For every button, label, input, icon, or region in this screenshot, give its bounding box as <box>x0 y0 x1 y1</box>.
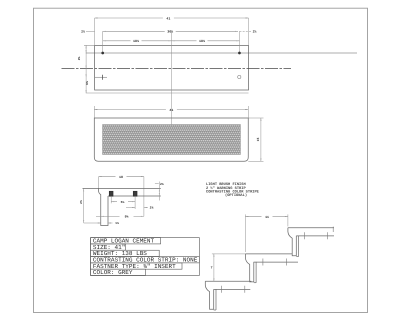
dim 41 view2 ext left <box>93 106 95 118</box>
insert dot right <box>238 52 241 55</box>
view1 tread plan outline <box>95 45 249 90</box>
spec table row 6 box <box>91 269 146 275</box>
view1 left dim arrow b <box>85 50 88 53</box>
stair tread3 top line <box>288 227 334 229</box>
stair tread1 anchor tick 2 <box>244 286 246 293</box>
view2 right dim arrow top <box>259 118 262 121</box>
stair tread1 nose profile <box>205 281 213 309</box>
stair dim 7 ext <box>212 253 246 255</box>
view1 left dim arrow d <box>85 74 88 77</box>
svg-text:2½: 2½ <box>80 200 83 204</box>
svg-text:18¼: 18¼ <box>133 39 139 43</box>
svg-text:(OPTIONAL): (OPTIONAL) <box>225 193 247 198</box>
dim 41 top <box>95 17 163 19</box>
spec table row 5 box <box>91 263 182 269</box>
section nose and leg outline <box>99 188 108 225</box>
section right dim line <box>158 182 160 201</box>
dim 18quarter right <box>172 40 197 42</box>
section dim 9fiveeighth <box>96 215 120 217</box>
dim 41 view2 ext right <box>247 106 249 118</box>
view1 left dim line <box>85 45 87 93</box>
horizontal centerline <box>62 68 292 70</box>
svg-text:9⅝: 9⅝ <box>125 214 129 218</box>
spec table row 1 box <box>91 238 161 244</box>
stair tread2 underside <box>254 261 298 263</box>
section insert square 1 <box>109 191 113 196</box>
sheet border frame <box>34 8 368 312</box>
svg-text:1¼: 1¼ <box>115 221 119 225</box>
svg-text:18¼: 18¼ <box>199 39 205 43</box>
dim 2quarter right leader <box>239 30 251 32</box>
section left dim line <box>83 188 85 223</box>
dim 18quarter left <box>103 40 131 42</box>
view1 bottom extension line <box>86 92 249 94</box>
svg-text:11: 11 <box>265 215 269 219</box>
stair tread2 anchor tick 2 <box>285 259 287 266</box>
stair tread2 anchor tick 1 <box>262 259 264 266</box>
spec table outer box <box>91 238 200 276</box>
svg-text:2¼: 2¼ <box>253 30 257 34</box>
stair tread1 top line <box>205 280 251 282</box>
section dim 10 ext right <box>143 177 145 217</box>
hole marker plus left <box>95 76 107 78</box>
section insert square 2 <box>133 191 137 196</box>
stair tread3 end tick <box>332 227 334 232</box>
dim 41 extension right <box>248 18 250 45</box>
section dim 1quarter <box>84 222 101 224</box>
section dim 2threequarter line <box>126 206 135 208</box>
view1 left dim arrow e <box>85 90 88 93</box>
stair tread2 top line <box>245 253 292 255</box>
svg-text:COLOR: GREY: COLOR: GREY <box>93 269 133 276</box>
stair tread3 anchor tick 2 <box>327 232 329 239</box>
svg-text:7: 7 <box>211 265 213 269</box>
section dim 10 <box>99 176 116 178</box>
svg-text:41: 41 <box>169 108 173 112</box>
svg-text:2⅛: 2⅛ <box>78 57 81 61</box>
svg-text:10: 10 <box>119 175 123 179</box>
stair tread2 nose profile <box>245 254 253 282</box>
view2 right dim arrow bottom <box>259 158 262 161</box>
view1 left dim arrow a <box>85 45 88 48</box>
dim 41 view2 <box>94 109 166 111</box>
spec table row 3 box <box>91 250 160 256</box>
view1 top edge extension line <box>84 44 95 46</box>
stair tread3 underside <box>296 235 334 237</box>
svg-text:2¾: 2¾ <box>150 206 154 210</box>
stair tread1 anchor tick 1 <box>220 286 222 293</box>
section dim 10 ext left <box>98 177 100 189</box>
stair dim 7 line <box>213 254 215 281</box>
view2 right dim ext bottom <box>248 160 263 162</box>
stair dim 11 <box>245 216 261 218</box>
dim 2 left leader <box>86 30 95 32</box>
svg-text:15: 15 <box>256 138 260 142</box>
view1 left dim arrow c <box>85 66 88 69</box>
stair tread3 nose profile <box>288 228 296 256</box>
view2 right dim line <box>260 118 262 161</box>
svg-text:2¼: 2¼ <box>160 182 164 186</box>
view2 hatched surface <box>103 125 241 155</box>
section dim 5quarter <box>111 201 117 203</box>
stair dim 11 ext right <box>287 214 289 226</box>
svg-text:5¼: 5¼ <box>121 200 125 204</box>
stair tread3 anchor tick 1 <box>304 232 306 239</box>
stair dim 7 arrows <box>212 254 215 257</box>
spec table row 4 box <box>91 257 200 263</box>
view2 tread front outline <box>94 118 248 161</box>
svg-text:2¼: 2¼ <box>81 30 85 34</box>
svg-text:41: 41 <box>166 16 170 20</box>
section insert ext 1 <box>110 196 112 203</box>
dim 36half extension right <box>238 31 240 53</box>
section top surface line <box>83 187 161 189</box>
section right dim arrows <box>158 188 161 191</box>
section insert ext 2 <box>134 196 136 209</box>
section right dim hook <box>155 183 159 185</box>
insert dot left <box>101 52 104 55</box>
svg-text:36½: 36½ <box>167 30 173 34</box>
view2 right dim ext top <box>248 117 263 119</box>
section left dim arrows <box>82 188 85 191</box>
dim 36half <box>103 30 165 32</box>
stair dim 11 ext left <box>244 214 246 252</box>
vertical center extension line <box>171 31 173 141</box>
section underside line <box>108 195 161 197</box>
insert reference line <box>86 52 357 54</box>
spec table row 2 box <box>91 244 126 250</box>
stair tread1 underside <box>214 288 251 290</box>
hole marker circle right <box>238 75 241 78</box>
dim 41 extension left <box>94 18 96 45</box>
dim 36half extension left <box>102 31 104 53</box>
svg-text:6⅛: 6⅛ <box>86 81 89 85</box>
